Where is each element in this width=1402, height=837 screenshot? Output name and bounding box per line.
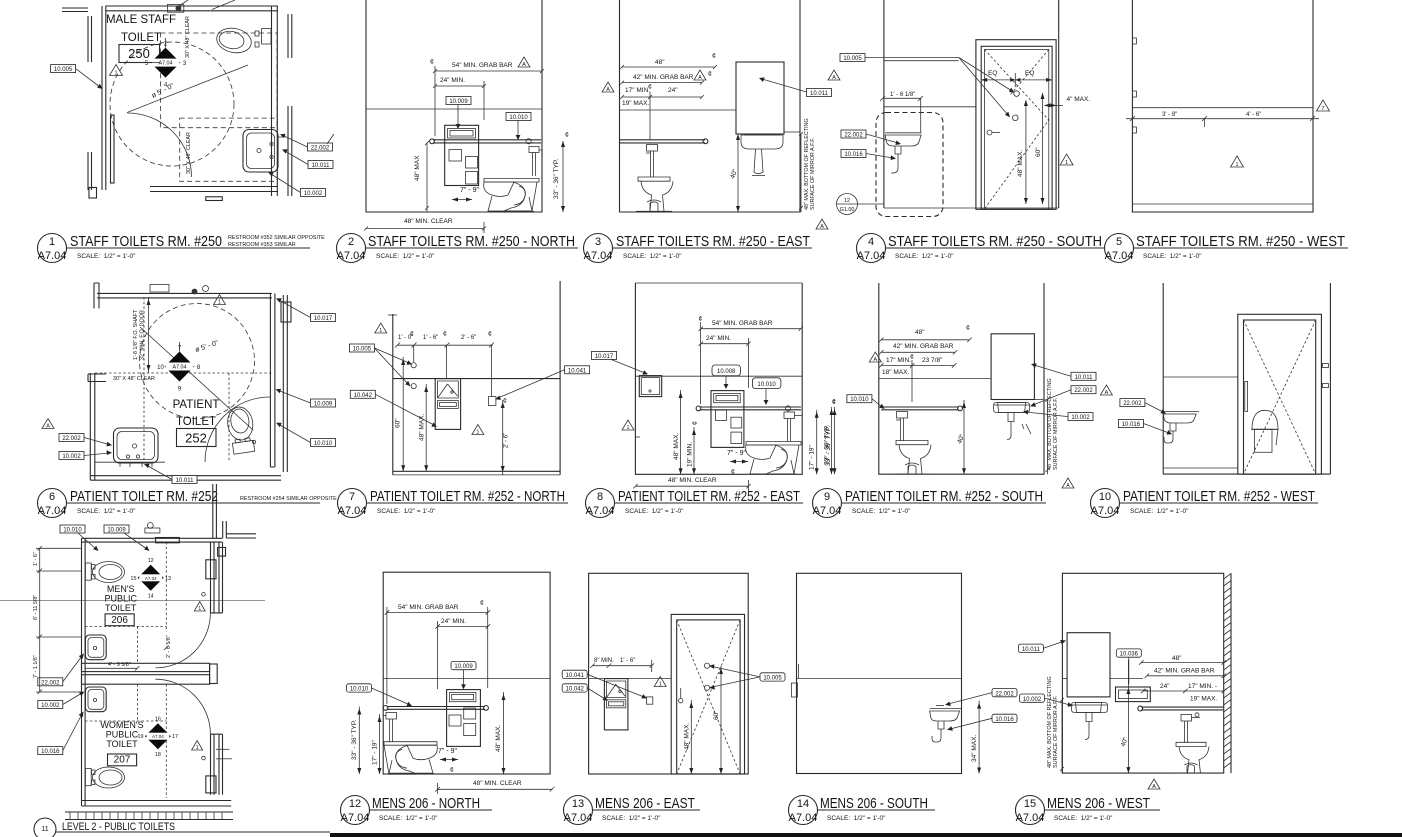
room outline <box>620 0 801 212</box>
wall band <box>1062 678 1067 680</box>
svg-text:PATIENT TOILET RM. #252 - EAST: PATIENT TOILET RM. #252 - EAST <box>618 488 800 505</box>
combo dispenser unit <box>447 690 481 747</box>
soap dispenser recessed <box>1116 687 1151 702</box>
svg-text:PUBLIC: PUBLIC <box>104 594 137 604</box>
svg-text:17" MIN. -: 17" MIN. - <box>1188 683 1217 690</box>
svg-text:SCALE: 1/2" = 1'-0": SCALE: 1/2" = 1'-0" <box>376 253 435 260</box>
svg-text:3' - 8": 3' - 8" <box>1162 112 1177 118</box>
wall band line <box>884 106 976 108</box>
bottom wall <box>90 476 281 481</box>
title block 15 <box>1016 795 1161 825</box>
small triangle below <box>816 219 828 229</box>
svg-text:¢: ¢ <box>708 71 712 78</box>
tag 22.002 <box>841 130 866 138</box>
svg-text:TOILET: TOILET <box>176 416 216 428</box>
counter line <box>95 461 165 463</box>
svg-text:PATIENT TOILET RM. #252 - WEST: PATIENT TOILET RM. #252 - WEST <box>1123 488 1315 505</box>
svg-text:48" MIN. CLEAR: 48" MIN. CLEAR <box>473 780 522 787</box>
sheet bottom border bar <box>330 833 1402 837</box>
svg-text:MENS 206 - WEST: MENS 206 - WEST <box>1047 795 1150 812</box>
tag 10.002 <box>1020 694 1045 702</box>
triangle 1 left <box>622 420 634 430</box>
svg-text:A7.04: A7.04 <box>152 734 164 739</box>
svg-text:48" MAX: 48" MAX <box>414 155 421 181</box>
right wall lower (womens) <box>211 734 223 795</box>
svg-text:10.005: 10.005 <box>843 56 862 62</box>
svg-text:EQ: EQ <box>988 70 997 77</box>
svg-text:10.009: 10.009 <box>454 664 473 670</box>
svg-text:10.016: 10.016 <box>41 749 60 755</box>
svg-text:¢: ¢ <box>731 469 735 476</box>
diameter diagonal <box>127 65 248 113</box>
svg-text:17" - 19": 17" - 19" <box>372 739 379 765</box>
svg-text:4' - 6": 4' - 6" <box>1246 112 1261 118</box>
door <box>671 614 744 774</box>
svg-text:A: A <box>873 357 877 363</box>
svg-text:48" MIN. CLEAR: 48" MIN. CLEAR <box>668 477 717 484</box>
wall band <box>879 378 991 380</box>
svg-text:STAFF TOILETS RM. #250 - EAST: STAFF TOILETS RM. #250 - EAST <box>616 233 810 250</box>
svg-text:1: 1 <box>1236 162 1239 168</box>
outer wall fragments left <box>88 16 92 62</box>
svg-text:10.009: 10.009 <box>314 402 333 408</box>
svg-text:10.017: 10.017 <box>595 354 614 360</box>
title block 12 <box>341 795 493 825</box>
svg-text:1: 1 <box>115 71 118 77</box>
toilet plan top-right <box>214 25 253 56</box>
svg-text:2' - 6": 2' - 6" <box>504 433 510 448</box>
svg-text:206: 206 <box>111 615 128 626</box>
combo dispenser unit <box>711 391 744 448</box>
tag 10.010 <box>754 379 780 387</box>
svg-text:¢: ¢ <box>443 331 447 338</box>
svg-text:PATIENT TOILET RM. #252 - SOUT: PATIENT TOILET RM. #252 - SOUTH <box>845 488 1043 505</box>
svg-text:13: 13 <box>165 576 171 582</box>
svg-text:207: 207 <box>114 755 131 766</box>
title block 11 <box>34 818 330 837</box>
svg-text:10.041: 10.041 <box>566 673 585 679</box>
mens door arc <box>155 613 210 668</box>
svg-text:10.005: 10.005 <box>353 347 372 353</box>
tag 10.005 <box>51 65 76 73</box>
svg-text:2: 2 <box>348 236 354 248</box>
grab bar <box>620 139 705 141</box>
svg-text:10.005: 10.005 <box>763 676 782 682</box>
tag 22.002 right <box>1071 386 1096 394</box>
tag 10.017 <box>592 351 617 359</box>
svg-text:30" X 48" CLEAR: 30" X 48" CLEAR <box>113 376 155 382</box>
left pilaster <box>88 374 106 382</box>
room right wall <box>272 6 278 196</box>
svg-text:17" MIN.: 17" MIN. <box>886 357 911 364</box>
mirror <box>991 334 1034 400</box>
tag 22.002 <box>1120 399 1145 407</box>
wall band line <box>366 108 542 110</box>
womens door arc <box>155 679 210 734</box>
svg-text:SCALE: 1/2" = 1'-0": SCALE: 1/2" = 1'-0" <box>623 253 682 260</box>
sink below mirror <box>1072 703 1108 713</box>
svg-text:SCALE: 1/2" = 1'-0": SCALE: 1/2" = 1'-0" <box>77 508 136 515</box>
svg-text:24": 24" <box>668 87 678 94</box>
svg-text:SCALE: 1/2" = 1'-0": SCALE: 1/2" = 1'-0" <box>379 815 438 822</box>
svg-text:10.010: 10.010 <box>350 687 369 693</box>
left wall marks <box>792 683 798 697</box>
tag 22.002 <box>59 434 84 442</box>
tag 10.011 <box>308 161 333 169</box>
left warning triangle <box>602 82 614 92</box>
wall band <box>589 678 672 680</box>
svg-text:30" X 48" CLEAR: 30" X 48" CLEAR <box>185 16 191 58</box>
combo dispenser unit <box>445 125 479 185</box>
grab bar <box>700 406 802 408</box>
svg-text:15: 15 <box>131 576 137 582</box>
svg-text:10.016: 10.016 <box>844 152 863 158</box>
svg-text:10.010: 10.010 <box>314 441 333 447</box>
svg-text:10.016: 10.016 <box>1122 422 1141 428</box>
svg-text:48" MAX.: 48" MAX. <box>684 723 691 750</box>
svg-text:¢: ¢ <box>648 84 652 91</box>
dashed clear floor lines womens <box>165 684 167 798</box>
svg-text:10.010: 10.010 <box>850 397 869 403</box>
svg-text:42" MIN. GRAB BAR: 42" MIN. GRAB BAR <box>633 74 694 81</box>
svg-text:A7.04: A7.04 <box>338 505 367 517</box>
tag 10.017 <box>311 314 336 322</box>
mens sink <box>85 635 106 660</box>
tag 10.016 <box>992 714 1017 722</box>
room left wall <box>102 6 106 115</box>
cistern top-left <box>639 376 661 397</box>
wall ticks left <box>1132 38 1136 44</box>
svg-text:PUBLIC: PUBLIC <box>106 730 139 740</box>
svg-text:A7.04: A7.04 <box>857 250 886 262</box>
top-left stub <box>94 283 99 308</box>
svg-text:33" - 36" TYP.: 33" - 36" TYP. <box>351 720 358 760</box>
svg-text:¢: ¢ <box>565 132 569 139</box>
svg-text:STAFF TOILETS RM. #250 - NORTH: STAFF TOILETS RM. #250 - NORTH <box>368 233 575 250</box>
svg-text:¢: ¢ <box>430 59 434 66</box>
svg-text:SURFACE OF MIRROR A.F.F.: SURFACE OF MIRROR A.F.F. <box>810 138 816 210</box>
corner block bottom-left <box>89 188 97 199</box>
title block 5 <box>1105 233 1349 263</box>
svg-text:SCALE: 1/2" = 1'-0": SCALE: 1/2" = 1'-0" <box>827 815 886 822</box>
svg-text:SCALE: 1/2" = 1'-0": SCALE: 1/2" = 1'-0" <box>852 508 911 515</box>
toilet plan <box>226 405 257 454</box>
svg-text:RESTROOM #254 SIMILAR OPPOSITE: RESTROOM #254 SIMILAR OPPOSITE <box>240 496 337 502</box>
svg-text:10.002: 10.002 <box>62 454 81 460</box>
paper towel dispenser <box>435 379 460 430</box>
svg-text:10.002: 10.002 <box>304 191 323 197</box>
svg-text:10.002: 10.002 <box>1023 697 1042 703</box>
grab bar <box>881 406 959 408</box>
svg-text:LEVEL 2 - PUBLIC TOILETS: LEVEL 2 - PUBLIC TOILETS <box>62 821 175 833</box>
svg-text:10.011: 10.011 <box>1022 647 1041 653</box>
ceiling fixtures top <box>147 523 153 529</box>
tag 10.010 <box>506 113 531 121</box>
grab bar <box>433 139 541 141</box>
svg-text:¢: ¢ <box>692 421 699 425</box>
svg-text:1: 1 <box>218 300 221 306</box>
room outline <box>383 572 550 774</box>
ceiling fixture + sensor <box>167 5 183 13</box>
grab bar <box>1141 706 1223 708</box>
side walls <box>392 314 394 475</box>
svg-text:17: 17 <box>172 734 178 740</box>
turning circle dashed <box>110 42 234 166</box>
svg-text:A7.04: A7.04 <box>789 812 818 824</box>
svg-text:22.002: 22.002 <box>62 436 81 442</box>
toilet with flush valve <box>647 145 658 152</box>
tag 10.011 right <box>1071 372 1096 380</box>
svg-text:A7.04: A7.04 <box>158 61 172 67</box>
svg-text:10.009: 10.009 <box>449 99 468 105</box>
mens toilet <box>93 562 125 583</box>
svg-text:A7.04: A7.04 <box>38 505 67 517</box>
svg-text:6: 6 <box>49 491 55 503</box>
door handle <box>987 130 992 135</box>
flush valve <box>784 412 795 419</box>
svg-text:10.008: 10.008 <box>717 369 736 375</box>
svg-text:G1.00: G1.00 <box>840 207 855 213</box>
svg-text:A7.04: A7.04 <box>145 576 157 581</box>
svg-text:3: 3 <box>595 236 601 248</box>
svg-text:13: 13 <box>572 798 584 810</box>
bottom wall <box>150 187 278 192</box>
svg-text:¢: ¢ <box>966 325 970 332</box>
triangle A bottom right <box>1062 478 1074 488</box>
svg-text:4: 4 <box>868 236 874 248</box>
svg-text:5: 5 <box>1116 236 1122 248</box>
tag 10.005 <box>840 54 865 62</box>
svg-text:8" MIN.: 8" MIN. <box>594 658 614 664</box>
svg-text:48" MAX.: 48" MAX. <box>419 414 426 441</box>
svg-text:A7.04: A7.04 <box>564 812 593 824</box>
svg-text:A: A <box>1066 483 1070 489</box>
svg-text:10.042: 10.042 <box>354 393 373 399</box>
svg-text:23 7/8": 23 7/8" <box>922 357 943 364</box>
sink plan <box>114 428 159 463</box>
sink below mirror <box>994 403 1030 413</box>
left dim lines <box>39 548 41 637</box>
svg-text:48" MAX.: 48" MAX. <box>1017 150 1024 177</box>
svg-text:A7.04: A7.04 <box>38 250 67 262</box>
svg-text:A7.04: A7.04 <box>172 365 186 371</box>
svg-text:¢: ¢ <box>503 398 507 405</box>
svg-text:RESTROOM #352 SIMILAR OPPOSITE: RESTROOM #352 SIMILAR OPPOSITE <box>228 235 325 241</box>
svg-text:16: 16 <box>155 717 161 723</box>
svg-text:252: 252 <box>185 431 207 446</box>
tag 10.002 <box>301 189 326 197</box>
svg-text:SCALE: 1/2" = 1'-0": SCALE: 1/2" = 1'-0" <box>377 508 436 515</box>
svg-text:1: 1 <box>198 606 201 612</box>
tag 10.042 <box>350 390 375 398</box>
wall band lines <box>620 109 737 111</box>
paper towel dispenser <box>604 679 628 730</box>
room outline <box>589 573 749 774</box>
tag 10.041 <box>565 366 590 374</box>
svg-text:A7.04: A7.04 <box>337 250 366 262</box>
wall band <box>797 678 962 680</box>
svg-text:7" - 9": 7" - 9" <box>727 450 746 457</box>
svg-text:EQ: EQ <box>1025 70 1034 77</box>
svg-text:SURFACE OF MIRROR A.F.F.: SURFACE OF MIRROR A.F.F. <box>1053 398 1059 470</box>
svg-text:PATIENT TOILET RM. #252 - NORT: PATIENT TOILET RM. #252 - NORTH <box>370 488 565 505</box>
svg-text:10.011: 10.011 <box>312 163 331 169</box>
svg-text:A7.04: A7.04 <box>1091 505 1120 517</box>
svg-text:48": 48" <box>1172 655 1182 662</box>
dashed clear floor lines mens <box>165 542 167 632</box>
triangle A left edge <box>828 70 840 80</box>
svg-text:A7.04: A7.04 <box>813 505 842 517</box>
tag 10.009 <box>311 399 336 407</box>
hatched band bottom <box>65 812 233 820</box>
svg-text:54" MIN. GRAB BAR: 54" MIN. GRAB BAR <box>452 62 513 69</box>
tag 10.009 <box>451 661 476 669</box>
svg-text:7: 7 <box>349 491 355 503</box>
triangle 1 <box>654 677 666 687</box>
mens diamond <box>138 565 164 591</box>
svg-text:SCALE: 1/2" = 1'-0": SCALE: 1/2" = 1'-0" <box>1143 253 1202 260</box>
svg-text:1: 1 <box>1065 160 1068 166</box>
svg-text:9: 9 <box>824 491 830 503</box>
warning triangles <box>214 295 226 305</box>
title block 2 <box>337 233 579 263</box>
svg-text:17" MIN.: 17" MIN. <box>625 87 650 94</box>
title block 10 <box>1091 488 1319 518</box>
corridor wall from above <box>213 484 217 538</box>
left wall <box>82 538 86 806</box>
tag 10.010 left <box>847 395 872 403</box>
tag 10.016 <box>1118 420 1143 428</box>
toilet seen in door <box>1252 410 1278 429</box>
wall band <box>1163 376 1238 378</box>
svg-text:24" MIN.: 24" MIN. <box>706 335 731 342</box>
top-right jog <box>223 521 227 538</box>
tag 10.002 right <box>1068 413 1093 421</box>
warning triangle A <box>518 57 530 67</box>
toilet elevation facing right <box>384 742 437 746</box>
svg-text:¢: ¢ <box>410 331 414 338</box>
toilet with flush valve <box>897 412 908 419</box>
svg-text:10.011: 10.011 <box>810 91 829 97</box>
dim 42 grab bar <box>869 352 881 362</box>
title block 4 <box>857 233 1105 263</box>
dim arrows top-left <box>148 297 150 373</box>
dashed sink enclosure <box>876 113 943 217</box>
door handle slot <box>1245 382 1248 412</box>
svg-text:A: A <box>1152 784 1156 790</box>
title block 6 <box>38 488 338 518</box>
tag 10.010 top <box>60 525 85 533</box>
side wall verticals <box>883 0 885 208</box>
svg-text:7: 7 <box>1322 106 1325 112</box>
svg-text:22.002: 22.002 <box>41 680 60 686</box>
svg-text:¢: ¢ <box>450 767 454 774</box>
3-4 vertical dim right <box>502 400 504 475</box>
tag 10.002 <box>59 452 84 460</box>
flush valve left <box>386 713 397 720</box>
right wall <box>270 293 275 467</box>
svg-text:250: 250 <box>128 46 150 61</box>
hinges right <box>1322 364 1328 368</box>
250 box <box>119 45 160 63</box>
diagonal <box>140 327 253 430</box>
svg-text:1: 1 <box>627 425 630 431</box>
soap square <box>647 697 653 704</box>
bottom wall <box>82 801 232 807</box>
tag 10.009 <box>446 97 471 105</box>
svg-text:A: A <box>820 224 824 230</box>
tag 10.036 <box>1116 649 1141 657</box>
svg-text:48" MIN. CLEAR: 48" MIN. CLEAR <box>404 218 453 225</box>
svg-text:60": 60" <box>395 418 402 428</box>
svg-text:48": 48" <box>655 59 665 66</box>
svg-text:SCALE: 1/2" = 1'-0": SCALE: 1/2" = 1'-0" <box>1130 508 1189 515</box>
door leaf <box>102 115 106 190</box>
room outline <box>1062 573 1223 773</box>
svg-text:48" MAX.: 48" MAX. <box>495 725 502 752</box>
svg-text:¢: ¢ <box>488 331 492 338</box>
svg-text:TOILET: TOILET <box>121 32 161 44</box>
left wall lower <box>90 373 95 480</box>
svg-text:4' - 9 5/8": 4' - 9 5/8" <box>108 662 131 668</box>
svg-text:2' - 6": 2' - 6" <box>461 335 476 341</box>
soap dispenser square <box>488 397 496 406</box>
tag 10.010 <box>347 684 372 692</box>
tag 10.011 <box>807 89 832 97</box>
svg-text:7" - 9": 7" - 9" <box>438 748 457 755</box>
tag 10.005 <box>349 344 374 352</box>
svg-text:34" MAX.: 34" MAX. <box>971 735 978 762</box>
svg-text:22.002: 22.002 <box>1074 388 1093 394</box>
svg-text:1: 1 <box>476 430 479 436</box>
svg-text:54" MIN. GRAB BAR: 54" MIN. GRAB BAR <box>398 604 459 611</box>
svg-text:MALE STAFF: MALE STAFF <box>106 14 176 26</box>
outer right wall fragments <box>288 14 292 58</box>
svg-text:A7.04: A7.04 <box>584 250 613 262</box>
svg-text:A: A <box>698 75 702 81</box>
title block 9 <box>813 488 1047 518</box>
sink profile <box>885 135 921 146</box>
svg-text:A: A <box>1105 390 1109 396</box>
door <box>1238 314 1322 474</box>
svg-text:19" MAX.: 19" MAX. <box>1190 696 1217 703</box>
demising wall chase <box>82 663 210 671</box>
turning circle dashed <box>140 304 255 419</box>
svg-text:7' - 1 1/8": 7' - 1 1/8" <box>33 655 39 678</box>
svg-text:22.002: 22.002 <box>995 691 1014 697</box>
womens sink <box>85 687 106 712</box>
svg-text:WOMEN'S: WOMEN'S <box>100 720 143 730</box>
svg-text:SCALE: 1/2" = 1'-0": SCALE: 1/2" = 1'-0" <box>895 253 954 260</box>
svg-text:18: 18 <box>155 752 161 758</box>
svg-text:10.011: 10.011 <box>1075 375 1094 381</box>
wall band <box>635 375 802 377</box>
womens diamond <box>145 723 171 749</box>
sink left <box>1163 410 1199 412</box>
svg-text:¢: ¢ <box>910 354 914 361</box>
svg-text:19" MIN.: 19" MIN. <box>687 442 694 467</box>
title block 14 <box>789 795 936 825</box>
svg-text:10: 10 <box>1099 491 1111 503</box>
warning triangles <box>194 602 205 612</box>
svg-text:10: 10 <box>157 365 164 371</box>
svg-text:1' - 6": 1' - 6" <box>620 658 635 664</box>
svg-text:24" MIN.: 24" MIN. <box>441 618 466 625</box>
svg-text:10.010: 10.010 <box>757 382 776 388</box>
svg-text:¢: ¢ <box>699 316 703 323</box>
mirror <box>1067 633 1110 697</box>
svg-text:PATIENT: PATIENT <box>173 399 220 411</box>
